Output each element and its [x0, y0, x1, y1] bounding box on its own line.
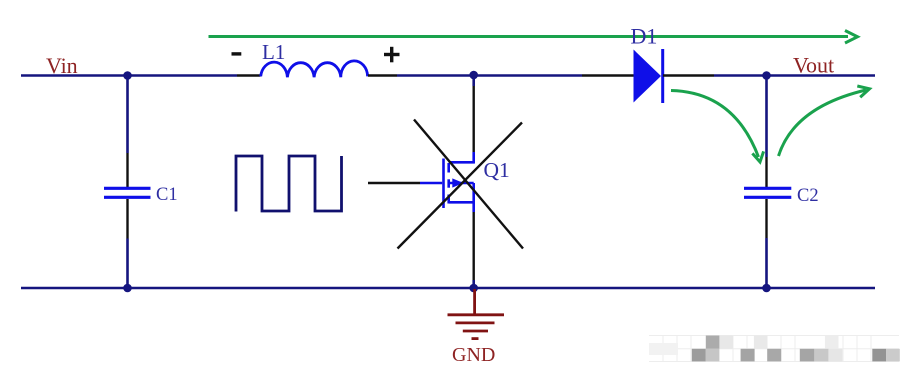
inductor L1 left pin: [237, 74, 261, 76]
wire: C1 branch upper: [126, 76, 129, 154]
capacitor C2 plates: [744, 188, 791, 197]
wire: C2 branch upper: [765, 76, 768, 158]
polarity plus sign: [384, 47, 400, 63]
inductor L1 winding: [261, 61, 368, 77]
junction node at C2/bottom rail: [762, 284, 771, 293]
svg-text:C2: C2: [797, 186, 819, 206]
junction node at Vout/C2: [762, 71, 771, 80]
junction node at source/bottom rail: [469, 284, 478, 293]
svg-text:C1: C1: [156, 185, 178, 205]
diode D1 body: [634, 49, 663, 103]
svg-text:GND: GND: [452, 344, 495, 366]
gate drive square wave symbol: [236, 156, 342, 212]
junction node at C1/bottom rail: [123, 284, 132, 293]
gate lead wire (black): [368, 182, 420, 185]
diode D1 cathode pin: [663, 74, 714, 76]
svg-text:Q1: Q1: [484, 158, 510, 182]
switch cross annotation line A: [414, 120, 523, 249]
green top current arrow: [209, 31, 858, 44]
wire bottom ground rail: [21, 287, 875, 290]
junction node at drain: [469, 71, 478, 80]
transistor Q1 (N-MOSFET): [420, 152, 475, 212]
wire: C2 branch lower: [765, 238, 768, 288]
watermark mosaic: [649, 336, 900, 362]
wire top: Vin rail left segment: [21, 74, 237, 77]
green arrow: C2 to output path: [779, 86, 870, 156]
wire top: diode to Vout: [714, 74, 875, 77]
svg-text:Vin: Vin: [46, 53, 78, 78]
switch cross annotation line B: [398, 123, 523, 249]
diode D1 anode pin: [582, 74, 634, 76]
capacitor C2 bottom pin: [765, 199, 767, 238]
capacitor C2 top pin: [765, 157, 767, 187]
svg-text:L1: L1: [262, 40, 285, 64]
junction node at Vin/C1: [123, 71, 132, 80]
polarity minus sign: [232, 52, 242, 55]
wire top: L1 to drain node: [397, 74, 582, 77]
wire: drain branch upper: [472, 76, 475, 87]
transistor Q1 drain pin: [473, 86, 475, 153]
green arrow: diode to C2 charge path: [671, 91, 764, 163]
transistor Q1 source pin: [473, 212, 475, 280]
wire: C1 branch lower: [126, 239, 129, 289]
ground symbol: [448, 289, 505, 339]
capacitor C1 plates: [104, 188, 151, 197]
inductor L1 right pin: [368, 74, 397, 76]
svg-text:D1: D1: [631, 24, 658, 49]
wire: source branch lower: [472, 280, 475, 288]
capacitor C1 bottom pin: [126, 199, 128, 239]
capacitor C1 top pin: [126, 153, 128, 187]
svg-text:Vout: Vout: [793, 53, 834, 78]
